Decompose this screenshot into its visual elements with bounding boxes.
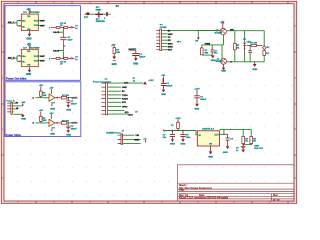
svg-text:GND: GND [194,108,199,110]
svg-text:DAC2: DAC2 [53,50,60,53]
svg-text:GND: GND [168,34,173,36]
svg-text:SCL: SCL [125,112,130,114]
svg-text:BT?: BT? [84,17,89,19]
svg-text:SWD: SWD [168,47,174,49]
svg-text:100nF: 100nF [71,103,78,105]
svg-text:GND: GND [66,109,71,111]
svg-text:VIN: VIN [135,135,139,137]
svg-text:GND: GND [21,119,26,121]
svg-text:R? 330: R? 330 [250,43,258,45]
svg-text:10uF: 10uF [68,40,74,42]
svg-text:Id: 1/1: Id: 1/1 [273,200,280,202]
svg-text:SCREW Power: SCREW Power [106,132,121,135]
svg-text:5VREG: 5VREG [129,50,137,52]
svg-text:3V3 OUT: 3V3 OUT [254,148,263,150]
svg-text:TXD0: TXD0 [122,95,128,97]
svg-text:GND: GND [26,38,31,40]
svg-text:BC817: BC817 [216,61,223,63]
svg-text:VO1: VO1 [34,56,39,58]
svg-text:Power Inline: Power Inline [6,133,22,137]
svg-text:IN-: IN- [22,62,25,64]
svg-text:BC817: BC817 [215,32,222,34]
svg-text:VO1: VO1 [34,21,39,23]
svg-text:NCP2890: NCP2890 [30,47,40,49]
svg-text:OUT: OUT [40,21,45,23]
svg-text:CONN: CONN [160,27,167,29]
svg-text:GD: GD [27,65,31,67]
svg-text:RST: RST [168,50,173,52]
svg-text:OUT: OUT [214,134,219,136]
svg-text:VP?: VP? [177,42,182,44]
svg-text:OUT1: OUT1 [72,98,79,100]
svg-text:IN-: IN- [22,26,25,28]
svg-text:GND: GND [252,69,257,71]
svg-text:Rev:: Rev: [273,195,278,197]
svg-text:+5V: +5V [111,45,116,47]
svg-text:GND: GND [170,144,175,146]
svg-text:Title:: Title: [179,189,185,192]
svg-text:GND: GND [134,139,139,141]
svg-text:RX: RX [168,40,172,42]
svg-text:GND: GND [161,94,166,96]
svg-text:SWC: SWC [168,43,174,45]
svg-text:R? 100: R? 100 [62,95,70,97]
svg-text:10K: 10K [43,95,47,97]
svg-text:SDA: SDA [128,114,133,117]
svg-text:100nF: 100nF [139,57,146,59]
svg-text:100uF: 100uF [200,99,207,101]
svg-text:J: J [49,58,50,60]
svg-text:GND: GND [26,74,31,76]
svg-text:GND: GND [50,108,55,110]
svg-text:OUT: OUT [40,56,45,58]
svg-text:VD: VD [27,16,30,18]
svg-text:10K: 10K [205,53,209,55]
svg-text:+5V: +5V [39,85,43,87]
svg-text:100n: 100n [186,137,191,139]
svg-text:NCP2890: NCP2890 [30,12,40,14]
svg-text:100uF: 100uF [166,86,173,88]
svg-text:VD: VD [27,51,30,53]
svg-text:GND: GND [112,64,117,66]
svg-text:+12V: +12V [148,80,154,82]
svg-text:RXD0: RXD0 [122,98,129,100]
svg-text:GD: GD [209,144,213,146]
svg-text:NIMH: NIMH [96,9,102,11]
svg-text:GND: GND [208,157,213,159]
svg-text:GND: GND [221,70,226,72]
svg-text:KiCad E.D.A. eeschema (2014-0: KiCad E.D.A. eeschema (2014-01-24)-stabl… [179,197,229,200]
svg-text:GND: GND [181,144,186,146]
svg-text:J: J [49,27,50,29]
svg-text:GND: GND [223,152,228,154]
svg-text:JUMPER: JUMPER [96,21,106,23]
svg-text:AIN_B: AIN_B [8,57,15,60]
svg-text:LM2576-3.3: LM2576-3.3 [202,129,215,131]
svg-text:10K: 10K [116,52,120,54]
svg-text:VB: VB [195,41,198,43]
svg-text:GND: GND [122,87,127,89]
svg-text:OUT: OUT [40,61,45,63]
svg-text:DAC1: DAC1 [53,31,60,34]
svg-text:Power Out Inline: Power Out Inline [6,76,27,80]
svg-text:PWM: PWM [205,44,211,46]
svg-text:12V: 12V [124,83,128,85]
svg-text:GPIO: GPIO [122,106,128,108]
svg-text:GND: GND [133,63,138,65]
svg-text:VO2: VO2 [34,61,39,63]
svg-text:+5V: +5V [21,102,25,104]
svg-text:OUT: OUT [40,25,45,27]
svg-text:VO2: VO2 [34,25,39,27]
